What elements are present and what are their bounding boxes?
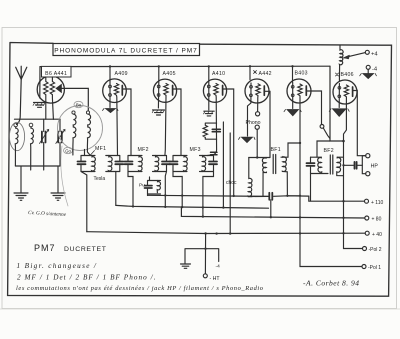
ground (-4 terminal) (360, 74, 377, 79)
svg-text:choc: choc (226, 180, 237, 186)
tube V6 plate (305, 86, 307, 95)
tube V2 grid (114, 84, 118, 156)
label PM7 DUCRETET (34, 243, 107, 253)
ground (V7 cathode) (329, 109, 349, 117)
svg-text:MF2: MF2 (138, 147, 149, 153)
ground (filament) (181, 264, 191, 268)
tube V7 label with x mark (336, 72, 354, 78)
wire CV2 top to grid bar (53, 118, 60, 120)
wire V3 plate to MF3 (173, 89, 181, 156)
wire bus to V3 (158, 67, 160, 83)
svg-text:2 MF / 1 Det / 2 BF / 1 BF Pho: 2 MF / 1 Det / 2 BF / 1 BF Phono /. (17, 274, 157, 282)
svg-text:PHONOMODULA 7L DUCRETET / PM7: PHONOMODULA 7L DUCRETET / PM7 (54, 48, 198, 55)
antenna coil can (ellipse) (9, 122, 24, 150)
variable capacitor CV2 (56, 119, 65, 166)
transformer BF1 primary coil (262, 158, 266, 197)
antenna (16, 66, 27, 124)
ground (V3 cathode) (152, 110, 164, 115)
wire V1 plate to oscillator coil (61, 88, 88, 110)
oscillator coil Lb (86, 111, 90, 155)
svg-text:- HT: - HT (210, 276, 221, 282)
svg-text:BF2: BF2 (324, 148, 334, 154)
bus +110 (148, 194, 365, 202)
variable capacitor CV1 (40, 119, 49, 166)
tube V6 B403 envelope (287, 79, 311, 103)
node choke out (286, 195, 288, 197)
wire osc coils to MF1 (85, 150, 91, 156)
transformer BF2 core (330, 155, 333, 174)
terminal +110 (365, 199, 384, 206)
filament dropper coil (339, 45, 343, 80)
wire MF1 primary bottom down (81, 172, 87, 232)
tube V1 grid 2 (zigzag) (50, 77, 54, 119)
capacitor C HP (342, 162, 362, 169)
node grid coil top (29, 123, 33, 127)
antenna coil L1 (15, 127, 18, 166)
tube V3 plate (172, 86, 174, 96)
transformer BF2 primary coil (311, 157, 329, 173)
wire bus-left down to ground (39, 67, 41, 98)
svg-text:MF3: MF3 (190, 147, 201, 153)
wire cap node down to +80 (270, 200, 272, 218)
svg-text:B406: B406 (341, 72, 354, 78)
capacitor C choke (252, 193, 272, 200)
svg-text:B6 A441: B6 A441 (45, 71, 67, 77)
capacitor C_k (V4 bias) (212, 129, 220, 131)
ground (V6 cathode) (284, 110, 301, 116)
wire bus to V5 (249, 66, 251, 80)
tube V7 B406 envelope (333, 80, 357, 104)
svg-text:A410: A410 (212, 71, 225, 77)
svg-text:les commutations n'ont pas été: les commutations n'ont pas été dessinées… (16, 285, 264, 292)
terminal -HT (203, 274, 220, 282)
svg-text:B403: B403 (295, 71, 308, 77)
svg-text:-4: -4 (216, 264, 221, 270)
svg-text:-A. Corbet 8. 94: -A. Corbet 8. 94 (303, 279, 360, 288)
wire bus to V6 (292, 66, 294, 82)
oscillator can (faint circle) (58, 106, 103, 151)
tube V3 cathode (157, 83, 160, 109)
ground (phono jack) (239, 137, 256, 142)
wire V7 plate to HP (353, 91, 366, 156)
tube V2 A409 envelope (103, 79, 127, 103)
svg-text:MF1: MF1 (95, 146, 106, 152)
tube V1 grid 1 (zigzag) (44, 77, 48, 119)
terminal HP bottom (366, 172, 370, 176)
leader line can to note (61, 146, 68, 206)
wire filament branch (185, 249, 219, 264)
tube V4 cathode (207, 83, 210, 111)
grid coil L2 (31, 127, 34, 166)
svg-text:+ 110: + 110 (371, 200, 383, 206)
svg-text:PM7: PM7 (34, 243, 56, 253)
wire bus end down (330, 66, 344, 141)
wire V4 plate down (223, 89, 234, 196)
svg-text:-Pol 1: -Pol 1 (368, 265, 381, 271)
wire V5 plate to BF1 (264, 91, 270, 157)
tube V5 cathode (248, 83, 253, 136)
tube V2 cathode (109, 82, 112, 108)
bus +40 / -HT (87, 232, 365, 235)
wire BF2 secondary top to junction line (337, 156, 343, 158)
resistor R_k (V4 bias) (203, 123, 217, 139)
MF3 secondary (200, 156, 218, 172)
transformer BF1 core (273, 155, 276, 174)
Pu pickup filter (cap + coil) (145, 177, 161, 194)
wire junction down (343, 141, 345, 233)
terminal +80 (365, 216, 382, 223)
wire MF3 primary down (173, 172, 182, 208)
label MF1 with leader (90, 146, 106, 156)
ground (antenna circuit left) (14, 193, 28, 200)
wire -HT drop (204, 234, 206, 274)
svg-text:A442: A442 (259, 71, 272, 77)
wire grid return bar (15, 118, 54, 120)
wire HP terminals (362, 156, 365, 174)
svg-text:-4: -4 (372, 66, 378, 72)
svg-text:Tesla: Tesla (94, 176, 106, 182)
bus +80 (181, 207, 364, 219)
wire MF3 secondary down (203, 172, 214, 217)
node Go (circled) (64, 147, 73, 153)
choke coil (248, 158, 252, 197)
wire MF2 secondary down (165, 172, 166, 208)
tube V3 A405 envelope (153, 79, 176, 102)
svg-text:+4: +4 (371, 51, 378, 57)
MF2 primary (125, 156, 143, 172)
terminal +40 (365, 231, 382, 238)
MF3 primary (170, 156, 188, 172)
transformer BF1 secondary coil (282, 157, 300, 196)
tube V7 plate (352, 87, 354, 96)
svg-text:Go: Go (65, 148, 71, 153)
tube V3 grid (164, 84, 168, 156)
tube V5 grid (256, 84, 260, 112)
wire phono to BF1 node (256, 129, 258, 157)
terminal -Pol 2 (363, 247, 382, 254)
wire bus to V2 (109, 67, 111, 83)
switch S1 (320, 125, 330, 139)
capacitor C6 (coupling) (211, 152, 218, 155)
tube V2 plate (121, 86, 123, 96)
tube V1 label box B6 A441 (42, 66, 72, 77)
svg-text:HP: HP (371, 163, 379, 169)
tube V1 B6/A441 envelope (37, 76, 64, 103)
node Bo (circled) (74, 101, 83, 107)
svg-text:DUCRETET: DUCRETET (64, 246, 107, 253)
top supply bus (40, 65, 330, 68)
oscillator coil La (72, 111, 76, 155)
terminal -Pol 1 (362, 265, 381, 272)
svg-text:A409: A409 (115, 71, 128, 77)
svg-text:Bo: Bo (76, 102, 82, 107)
tube V4 plate (222, 86, 224, 96)
MF1 secondary (coil + cap) (106, 156, 124, 172)
terminal HP top (366, 154, 370, 158)
node antenna coil top (14, 123, 18, 127)
wire BF1 secondary top to V6 grid (281, 143, 300, 157)
tube V5 A442 envelope (245, 79, 269, 103)
capacitor BF2 input (307, 141, 331, 201)
svg-text:+ 80: + 80 (372, 217, 382, 223)
node junction 141 (342, 140, 345, 143)
tube V4 grid (208, 84, 219, 156)
wire detector lines (223, 122, 230, 234)
tube V5 label with x mark (254, 71, 272, 77)
wire arrow to +4 (343, 53, 365, 59)
ground (tube V1 cathode) (33, 103, 46, 108)
tube V1 plate (56, 85, 61, 93)
tube V7 cathode (338, 84, 341, 108)
MF2 secondary (153, 156, 171, 172)
node phono jack top (256, 112, 260, 116)
wire V6 plate to switch (306, 91, 321, 124)
wire bus to V4 (208, 67, 210, 83)
tube V5 plate (263, 86, 265, 95)
ground (V4 cathode) (204, 111, 215, 116)
svg-text:A405: A405 (163, 71, 176, 77)
wire Pu down (147, 194, 149, 196)
MF1 primary (cap + coil) (78, 156, 96, 172)
tube V6 grid (298, 84, 302, 143)
svg-text:1 Bigr. changeuse /: 1 Bigr. changeuse / (17, 262, 98, 270)
wire Pol1 from grid line (300, 143, 362, 267)
bus B (116, 205, 269, 209)
transformer BF2 secondary coil (337, 157, 343, 176)
wire bottom return (15, 166, 60, 193)
svg-text:-Pol 2: -Pol 2 (369, 247, 382, 253)
node phono jack bottom (255, 125, 259, 129)
wire BF1 input node (249, 157, 270, 159)
svg-text:BF1: BF1 (271, 147, 281, 153)
ground (V2 cathode) (103, 109, 119, 113)
tube V7 grid (344, 85, 349, 141)
wire MF2 primary down (128, 172, 133, 207)
title box (53, 44, 200, 56)
terminal -4 (366, 65, 378, 73)
tube V4 A410 envelope (203, 79, 226, 102)
wire MF1 secondary bottom down (115, 172, 117, 206)
tube V6 cathode (291, 83, 294, 109)
wire V2 plate to MF2 (122, 89, 131, 156)
terminal +4 (365, 50, 378, 57)
wire Pol2 drop (344, 233, 363, 249)
svg-text:+ 40: + 40 (372, 232, 382, 238)
ground (antenna circuit right) (51, 193, 65, 200)
schematic frame (8, 43, 392, 297)
